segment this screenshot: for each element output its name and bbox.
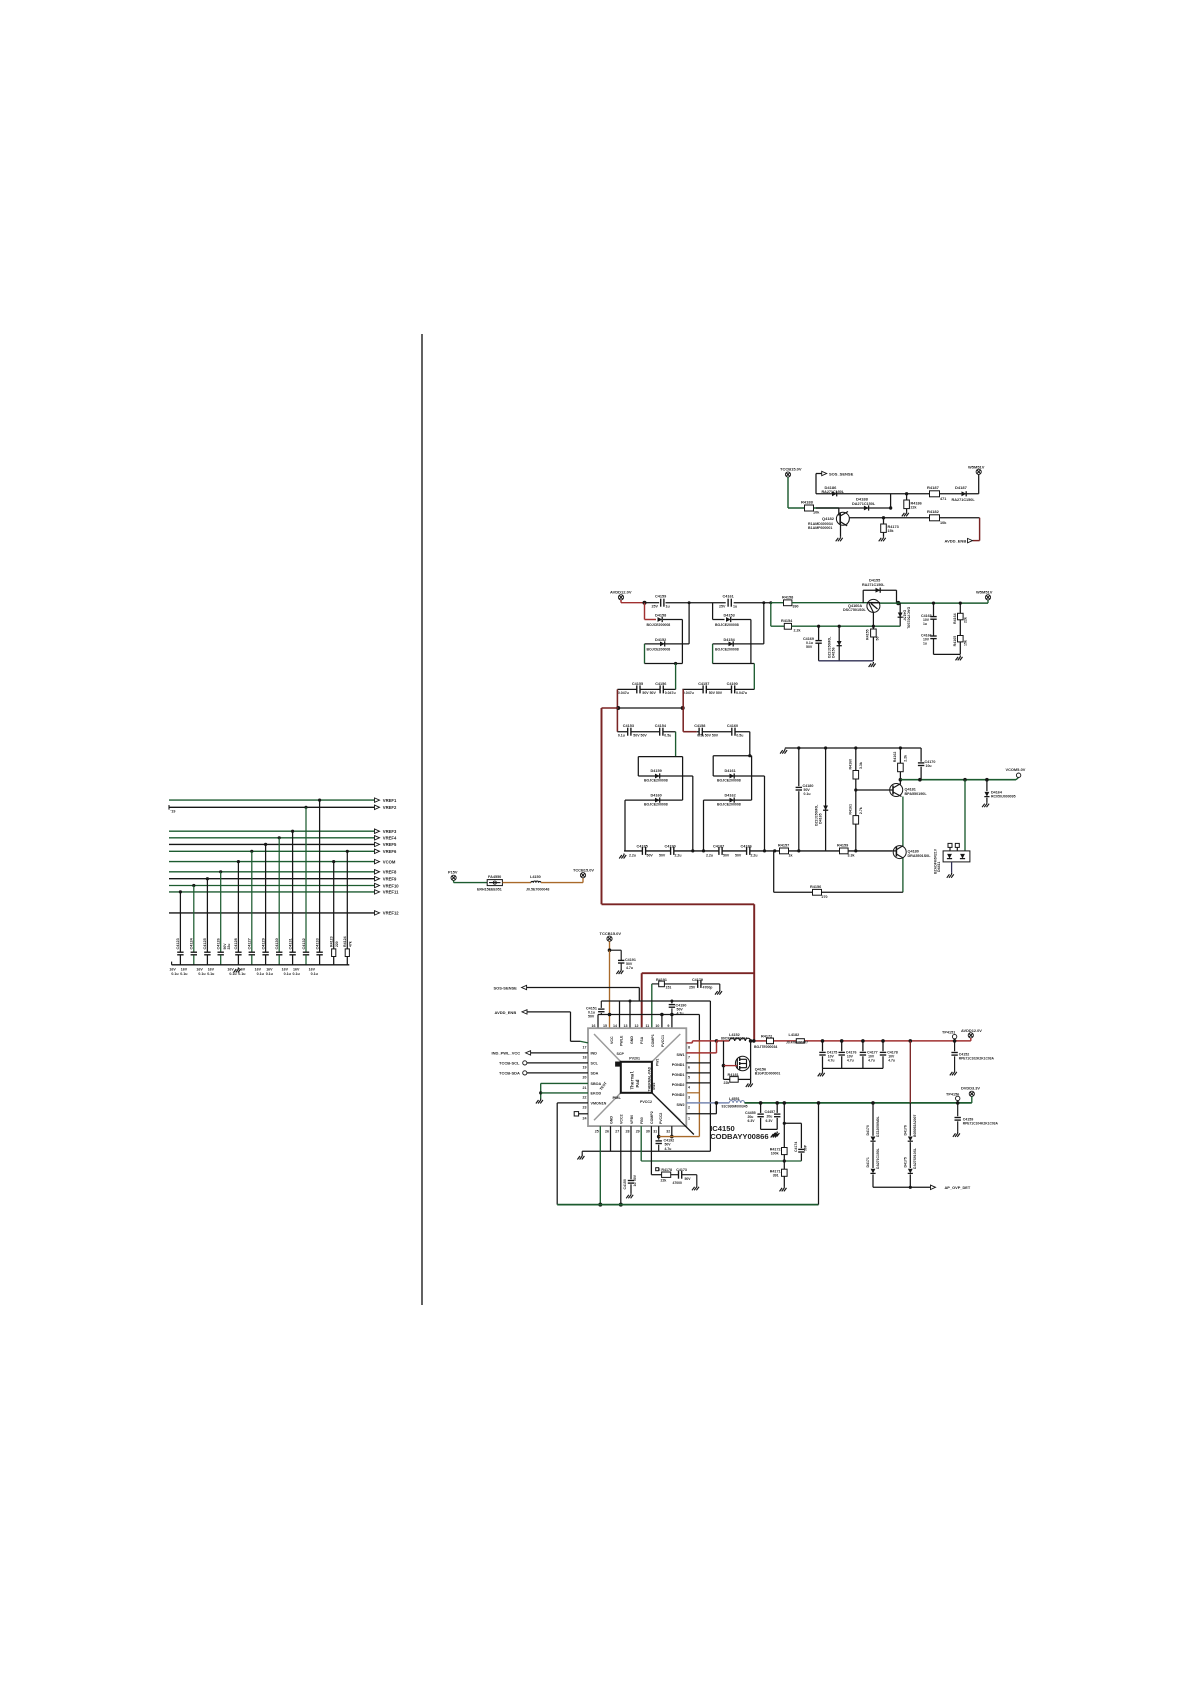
svg-text:B1AMF600001: B1AMF600001 (808, 526, 832, 530)
svg-text:IND: IND (591, 1052, 598, 1056)
svg-text:100k: 100k (771, 1152, 779, 1156)
svg-text:C4161: C4161 (723, 595, 734, 599)
svg-text:SCL: SCL (591, 1062, 599, 1066)
svg-text:0.1u: 0.1u (618, 733, 625, 737)
svg-text:2.2k: 2.2k (794, 629, 801, 633)
svg-text:DRA5501S0L: DRA5501S0L (908, 854, 932, 858)
svg-text:D4170: D4170 (866, 1125, 870, 1135)
svg-text:C4131: C4131 (288, 938, 292, 949)
svg-text:1: 1 (688, 1116, 690, 1120)
svg-text:1u: 1u (633, 1183, 637, 1187)
svg-text:DZ2J056M0L: DZ2J056M0L (876, 1116, 880, 1137)
capacitor C4166 10V 1u (921, 619, 960, 654)
svg-text:VREF10: VREF10 (383, 883, 399, 888)
svg-text:PVCC2: PVCC2 (640, 1100, 652, 1104)
svg-text:0.047u: 0.047u (618, 691, 629, 695)
signal tag AP_OVP_DET (873, 1185, 971, 1190)
capacitor C4132 on net drop wire (293, 806, 310, 976)
svg-text:3.3k: 3.3k (848, 853, 855, 857)
svg-text:151: 151 (666, 986, 672, 990)
svg-text:TP4156: TP4156 (946, 1092, 959, 1096)
svg-text:4.7u: 4.7u (847, 1058, 854, 1062)
signal tag TCCB-SCL to pin19 (499, 1061, 588, 1066)
resistor R4181 22k (724, 1066, 751, 1085)
svg-text:0.1u: 0.1u (293, 972, 300, 976)
IC right inner pin names (672, 1053, 685, 1107)
svg-text:D4159: D4159 (651, 769, 662, 773)
svg-text:50V: 50V (633, 1174, 637, 1181)
resistor R4173 15k to ground (879, 516, 899, 541)
wire pin23 down to bottom rail (557, 1103, 588, 1205)
svg-text:C4129: C4129 (261, 938, 265, 949)
wire pvcc2 vertical right of IC (686, 1015, 699, 1137)
svg-text:4.7u: 4.7u (677, 1011, 684, 1015)
wire net VREF11 with output tag (169, 890, 399, 895)
svg-text:18: 18 (583, 1056, 587, 1060)
svg-text:VREF12: VREF12 (383, 911, 399, 916)
diode D4188 DA271C150L (852, 497, 876, 511)
power tag DVDD3.3V (961, 1086, 980, 1103)
wires top pins verticals (598, 1001, 672, 1028)
svg-text:DA271C150L: DA271C150L (876, 1148, 880, 1169)
wire pin27 to bottom rail (619, 1126, 623, 1207)
svg-text:R4161: R4161 (849, 804, 853, 815)
dual diode pack D4411 (934, 780, 970, 878)
svg-text:FA4550: FA4550 (488, 875, 501, 879)
svg-text:391: 391 (773, 1174, 779, 1178)
svg-text:D4411: D4411 (937, 862, 941, 872)
diode D4186 RA271C150L (822, 485, 845, 497)
zener D4156 DZ2J150M0L vertical (828, 626, 842, 661)
svg-text:P15V: P15V (448, 870, 458, 875)
svg-text:16V: 16V (181, 967, 188, 971)
svg-text:C4132: C4132 (302, 938, 306, 949)
wire pin7 red to node (686, 1041, 716, 1053)
svg-text:15k: 15k (964, 640, 968, 646)
svg-text:14: 14 (613, 1024, 617, 1028)
svg-text:16V: 16V (266, 967, 273, 971)
svg-text:VREF2: VREF2 (383, 805, 397, 810)
top rail of analog block with ground (780, 746, 921, 753)
svg-text:R4181: R4181 (728, 1073, 739, 1077)
transistor Q4180 DRA5501S0L (892, 846, 931, 859)
svg-text:16V: 16V (208, 967, 215, 971)
bottom rail y850.9 with caps (624, 850, 892, 852)
svg-text:ERH15EEE051: ERH15EEE051 (477, 887, 502, 891)
svg-text:C4123: C4123 (176, 938, 180, 949)
svg-text:32: 32 (666, 1130, 670, 1134)
node dot after Q4160A (880, 601, 988, 605)
svg-text:50V: 50V (806, 645, 813, 649)
capacitor C4185 2.2u 50V (629, 845, 653, 858)
svg-text:GND: GND (630, 1036, 634, 1044)
svg-text:C4187: C4187 (713, 845, 724, 849)
IC thermal pad (615, 1062, 651, 1093)
svg-text:0.1u: 0.1u (804, 792, 811, 796)
IC black diagonal to PVCC2 node (652, 1093, 694, 1135)
diodes D4170 DZ2J056M0L column (866, 1103, 880, 1168)
svg-text:31: 31 (653, 1130, 657, 1134)
wire VCOM5 green output line (900, 778, 1016, 782)
wire net VREF3 with output tag (169, 829, 397, 834)
svg-text:D4152: D4152 (655, 638, 666, 642)
svg-text:PGND2: PGND2 (672, 1093, 685, 1097)
svg-text:R4188: R4188 (801, 500, 814, 505)
svg-text:25V: 25V (689, 986, 696, 990)
ground at left of bottom rail (619, 854, 626, 859)
svg-text:17: 17 (583, 1046, 587, 1050)
wire net VREF9 with output tag (169, 877, 397, 882)
svg-text:0.047u: 0.047u (683, 691, 694, 695)
svg-text:6.3V: 6.3V (766, 1119, 774, 1123)
svg-text:C4153: C4153 (623, 724, 634, 728)
svg-text:RA271C150L: RA271C150L (952, 498, 976, 502)
svg-text:TCCB15.0V: TCCB15.0V (600, 931, 622, 936)
power tag AVDD12.0V right (961, 1028, 982, 1041)
svg-text:28: 28 (626, 1130, 630, 1134)
ground right of part number (771, 1133, 778, 1138)
svg-text:C4185: C4185 (637, 845, 648, 849)
svg-text:W5M51V: W5M51V (968, 464, 985, 469)
svg-text:4: 4 (688, 1086, 690, 1090)
svg-text:0.5u: 0.5u (664, 733, 671, 737)
diode D4171 DA271C150L (866, 1148, 880, 1187)
svg-text:0.1u: 0.1u (198, 972, 205, 976)
svg-text:26: 26 (605, 1130, 609, 1134)
svg-text:16V: 16V (169, 967, 176, 971)
svg-text:C4174: C4174 (794, 1142, 798, 1152)
svg-text:SW2: SW2 (677, 1103, 685, 1107)
wire to TCCB15 tag (541, 878, 583, 883)
resistor R4186 22k to ground (902, 492, 922, 516)
svg-text:VFB0: VFB0 (630, 1115, 634, 1124)
svg-text:R4165: R4165 (953, 636, 957, 647)
svg-text:BOJTE000034: BOJTE000034 (754, 1045, 777, 1049)
wire red AVDD distribution node row (602, 689, 697, 731)
svg-text:22: 22 (583, 1096, 587, 1100)
svg-text:6: 6 (688, 1066, 690, 1070)
svg-text:VREF5: VREF5 (383, 842, 397, 847)
svg-text:R4154: R4154 (781, 619, 793, 623)
svg-text:D4187: D4187 (955, 485, 968, 490)
resistor R4162 2.2k vertical (893, 748, 908, 782)
diode D4162 BOJCE200008 (704, 776, 752, 851)
svg-text:30: 30 (646, 1130, 650, 1134)
svg-text:BOJCE200008: BOJCE200008 (647, 623, 671, 627)
svg-text:BOJCE200008: BOJCE200008 (644, 803, 668, 807)
signal tag SOS_SENSE (816, 471, 854, 494)
svg-text:D4186: D4186 (825, 485, 838, 490)
svg-text:BOJCE200008: BOJCE200008 (717, 803, 741, 807)
svg-text:16V: 16V (282, 967, 289, 971)
svg-text:DSC7501S0L: DSC7501S0L (843, 608, 866, 612)
capacitor C4159 25V 1u (652, 595, 670, 609)
svg-text:D4161: D4161 (725, 769, 736, 773)
svg-text:1u: 1u (923, 641, 927, 645)
wire right riser of bottom rail (818, 1103, 820, 1205)
wire inner horizontal y1014.5 (598, 1013, 699, 1017)
diode D4164 to ground (982, 780, 1015, 808)
wire to fuse (454, 882, 488, 884)
wire AVDD rail red stub (621, 601, 647, 605)
svg-text:20: 20 (583, 1076, 587, 1080)
ground under mosfet (746, 1079, 753, 1087)
svg-text:50V: 50V (735, 853, 742, 857)
svg-text:22k: 22k (724, 1081, 730, 1085)
wire outer box right side (709, 1001, 711, 1151)
power symbol W5M51V right (968, 464, 985, 494)
wire navy bottom of block B and ground (819, 661, 876, 667)
wire sense line y493.8 (816, 493, 979, 495)
diode D4157 DAC7501S0L vertical (898, 603, 911, 630)
wire bottom rail dark green (557, 1204, 818, 1206)
svg-text:COMP1: COMP1 (651, 1034, 655, 1047)
svg-text:0.1u: 0.1u (284, 972, 291, 976)
svg-text:BPA550190L: BPA550190L (905, 792, 928, 796)
svg-text:PVCC1: PVCC1 (661, 1035, 665, 1047)
power symbol TCCB15.0V mid (573, 868, 594, 878)
wire net VREF12 with output tag (169, 911, 399, 916)
svg-text:C4190: C4190 (665, 845, 676, 849)
resistor R4161 2.7k vertical (849, 790, 864, 853)
wire base line y508 (788, 507, 889, 509)
svg-text:D4175: D4175 (903, 1157, 907, 1167)
power symbol AVDD12.0V (610, 590, 632, 603)
svg-text:GND: GND (609, 1116, 613, 1124)
svg-text:AVDD_ENB: AVDD_ENB (495, 1010, 517, 1015)
charge-pump cell 1 diode D4158 BOJCE200008 (645, 603, 683, 664)
ground under capacitor bank (234, 968, 241, 973)
svg-text:15k: 15k (888, 529, 894, 533)
svg-text:0.1u: 0.1u (257, 972, 264, 976)
wire net VREF8 with output tag (169, 870, 397, 875)
svg-text:50V: 50V (723, 853, 730, 857)
svg-text:13: 13 (624, 1024, 628, 1028)
capacitor C4159 under TP4156 (953, 1103, 999, 1137)
wire pin25 green to bottom rail (598, 1126, 602, 1207)
capacitor C4131 on net drop wire (282, 830, 296, 976)
capacitor pair C4157 C4190 row2 (682, 682, 754, 695)
svg-text:2.2u: 2.2u (675, 853, 682, 857)
capacitor C4125 on net drop wire (196, 877, 210, 976)
svg-text:6.3V: 6.3V (748, 1119, 756, 1123)
svg-text:R4156: R4156 (810, 885, 821, 889)
cap bank bottom wire and ground (818, 1068, 883, 1076)
charge-pump cell 2 diode D4153 BOJCE200008 (713, 603, 751, 664)
inductor L4551 (722, 1097, 748, 1108)
wire green mid rail y626.2 with R4154 2.2k (771, 603, 900, 633)
svg-text:C4186: C4186 (741, 845, 752, 849)
wire emitter green down (902, 797, 904, 847)
svg-text:C4150: C4150 (623, 1179, 627, 1189)
wire net VREF1 with output tag (169, 798, 397, 803)
IC part number text (710, 1124, 768, 1141)
resistor R4164 22k vertical (953, 602, 968, 636)
svg-text:DAC7501S0L: DAC7501S0L (907, 607, 911, 630)
svg-text:5: 5 (688, 1076, 690, 1080)
wire FB green line from pin29 (641, 1159, 801, 1162)
svg-text:R4124: R4124 (343, 936, 347, 947)
svg-text:DZ2J150M0L: DZ2J150M0L (815, 804, 819, 826)
svg-text:3.3k: 3.3k (859, 762, 863, 769)
mosfet Q4156 B1GP2D000001 (735, 1056, 780, 1075)
capacitor C4186 50V 2.2u (735, 845, 758, 858)
capacitor C4130 on net drop wire (266, 836, 283, 976)
capacitor C4128 on VCOM drop wire (223, 860, 242, 976)
IC U4150 body outline (588, 1028, 686, 1126)
svg-text:4700p: 4700p (703, 986, 713, 990)
zener D4165 DZ2J150M0L vertical (815, 748, 829, 851)
svg-text:Pad: Pad (636, 1079, 641, 1087)
svg-text:22u: 22u (227, 944, 231, 950)
wire net VREF10 with output tag (169, 883, 399, 888)
svg-text:22k: 22k (911, 506, 917, 510)
svg-text:1u: 1u (733, 605, 737, 609)
svg-text:BOJCE200008: BOJCE200008 (715, 647, 739, 651)
svg-text:R4155: R4155 (866, 629, 870, 640)
svg-text:D4153: D4153 (724, 614, 735, 618)
svg-text:PGND1: PGND1 (672, 1063, 685, 1067)
IC chamfer diagonals (594, 1034, 680, 1120)
resistor R4157 1k (778, 843, 793, 857)
svg-text:50V 50V: 50V 50V (705, 733, 719, 737)
svg-text:D4160: D4160 (651, 793, 662, 797)
capacitor C4127 on net drop wire (238, 850, 255, 976)
wire pin1 to SW2 node (686, 1103, 716, 1114)
svg-text:23: 23 (583, 1106, 587, 1110)
svg-text:Q4182: Q4182 (822, 516, 835, 521)
svg-text:270: 270 (822, 895, 828, 899)
resistor R4178 22k (656, 1168, 672, 1183)
svg-text:TCCB-SCL: TCCB-SCL (499, 1061, 520, 1066)
diode D4175 DA27S910SL (903, 1148, 917, 1189)
svg-text:SBOA: SBOA (591, 1082, 602, 1086)
capacitor C4161 25V 1u (719, 595, 737, 609)
svg-text:47k: 47k (348, 941, 352, 947)
svg-text:25V: 25V (652, 605, 659, 609)
svg-text:BZADFK6R21V: BZADFK6R21V (934, 848, 938, 874)
svg-text:0.1u: 0.1u (266, 972, 273, 976)
resistor R4124 on VREF6 drop to rail (343, 850, 352, 965)
capacitor pair C4153 C4154 row3 (617, 724, 675, 737)
diode loop D4155 RA271C150L over Q4160A (862, 579, 897, 604)
svg-text:VREF1: VREF1 (383, 798, 397, 803)
wire pin29 green down (640, 1126, 642, 1161)
capacitor C4133 on net drop wire (309, 799, 323, 976)
svg-text:D4171: D4171 (866, 1157, 870, 1167)
svg-text:VCC2: VCC2 (620, 1114, 624, 1124)
svg-text:R4187: R4187 (927, 485, 940, 490)
node label 19 near VREF2 start (169, 805, 175, 814)
collector wire y517.8 (849, 517, 979, 519)
svg-text:DA27S910SL: DA27S910SL (913, 1148, 917, 1169)
svg-text:D4155: D4155 (869, 579, 880, 583)
svg-text:1u: 1u (923, 622, 927, 626)
svg-text:R4164: R4164 (953, 613, 957, 624)
svg-text:0.1u: 0.1u (229, 972, 236, 976)
wires pins 4 5 6 PGND to outer box (686, 1063, 710, 1083)
svg-text:VREF11: VREF11 (383, 890, 399, 895)
svg-text:DA271C150L: DA271C150L (852, 502, 876, 506)
wire pin8 red to node (686, 1039, 718, 1043)
svg-text:AP_OVP_DET: AP_OVP_DET (945, 1185, 971, 1190)
svg-text:10u: 10u (926, 764, 932, 768)
svg-text:4.7u: 4.7u (868, 1058, 875, 1062)
svg-text:SOS_SENSE: SOS_SENSE (829, 471, 854, 476)
resistor R4172 100k vertical (770, 1123, 787, 1161)
svg-text:PGND1: PGND1 (672, 1073, 685, 1077)
svg-text:25V: 25V (719, 605, 726, 609)
svg-text:SW1: SW1 (677, 1053, 685, 1057)
svg-text:16: 16 (592, 1024, 596, 1028)
svg-text:VREF9: VREF9 (383, 877, 397, 882)
IC bottom inner pin names (609, 1111, 663, 1124)
resistor R4160 3.3k vertical (849, 748, 864, 792)
junction dots on bottom rail (691, 849, 800, 852)
svg-text:C4128: C4128 (234, 938, 238, 949)
svg-text:BOJCE200008: BOJCE200008 (715, 623, 739, 627)
wire AVDD_ENB dark red (973, 518, 980, 541)
svg-text:C4126: C4126 (217, 938, 221, 949)
svg-text:3: 3 (688, 1095, 690, 1099)
svg-text:R4172: R4172 (761, 1034, 772, 1038)
power symbol TCCB15.0V top (780, 467, 802, 509)
wire AVDD red loop (602, 708, 755, 1041)
capacitor C4192 50V 4.7u (655, 1137, 674, 1152)
svg-text:J0.5E7000048: J0.5E7000048 (526, 887, 549, 891)
capacitor C4174 56P (794, 1142, 808, 1161)
svg-text:VREF3: VREF3 (383, 829, 397, 834)
wire green to pin11 (651, 984, 653, 1028)
svg-text:D4157: D4157 (903, 610, 907, 621)
svg-text:2.2u: 2.2u (706, 853, 713, 857)
svg-text:C4156: C4156 (655, 682, 666, 686)
resistor R4188 10k (801, 500, 820, 515)
svg-text:7: 7 (688, 1056, 690, 1060)
svg-text:50V: 50V (647, 853, 654, 857)
svg-text:R4158: R4158 (782, 595, 793, 599)
svg-text:56: 56 (876, 637, 880, 641)
wire red rail AVDD12 gen (717, 1039, 971, 1043)
svg-text:4.7u: 4.7u (828, 1058, 835, 1062)
capacitor C4150 1u 50V on pin28 (623, 1126, 637, 1198)
wires pins31 32 to PVCC2 node (657, 1126, 700, 1138)
svg-text:0.047u: 0.047u (665, 691, 676, 695)
svg-text:D4165: D4165 (819, 813, 823, 824)
test point TP4151 (942, 1031, 957, 1041)
svg-text:47000: 47000 (673, 1181, 683, 1185)
svg-text:0.1u: 0.1u (171, 972, 178, 976)
capacitor C4123 on net drop wire (169, 890, 183, 975)
svg-text:D4158: D4158 (655, 614, 666, 618)
svg-text:10k: 10k (813, 511, 820, 515)
svg-text:16V: 16V (309, 967, 316, 971)
svg-text:16V: 16V (293, 967, 300, 971)
svg-text:50V: 50V (588, 1015, 595, 1019)
svg-text:L4150: L4150 (530, 875, 541, 879)
svg-text:DVDD3.3V: DVDD3.3V (961, 1086, 980, 1091)
svg-text:56P: 56P (804, 1144, 808, 1151)
wire fuse to inductor (502, 882, 531, 884)
diode D4187 RA271C150L (952, 485, 976, 502)
svg-text:R4160: R4160 (849, 759, 853, 770)
svg-text:C4127: C4127 (248, 938, 252, 949)
svg-text:2.2u: 2.2u (751, 853, 758, 857)
resistor R4187 471 (927, 485, 946, 501)
svg-text:TCCB15.0V: TCCB15.0V (573, 868, 594, 873)
svg-text:SW2: SW2 (652, 1083, 656, 1090)
capacitor C4190 50V 4.7u top of IC (669, 1001, 687, 1015)
